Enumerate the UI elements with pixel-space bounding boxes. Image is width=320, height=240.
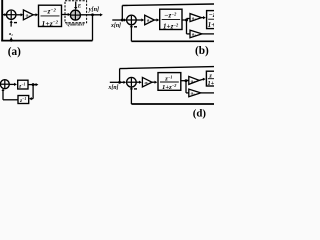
amp d-a3 (lower) [186,89,201,97]
block H3 (cut off at edge) [207,11,220,29]
amp b-a2 (top) [187,14,202,22]
wire input to summer S1 [2,13,7,16]
wire block D2 back to summer S3 [2,88,19,99]
summer S3 (cut at left edge) [0,80,9,89]
wire S3 to block D1 [9,83,17,86]
wire amp b-a2 to block H3 [202,16,206,19]
svg-text:a3: a3 [191,91,195,97]
wire node down to block D2 [29,85,33,101]
wire amp a1 to summer S1 minus port [10,20,13,27]
svg-text:(d): (d) [193,107,207,119]
wire S4 to amp d-a1 [136,81,142,84]
amp a1 (points up) [9,31,13,37]
quantizer dashed box [65,1,87,23]
wire bottom rail (b) [131,40,214,42]
block H2 -z^-2/(1+z^-2) [160,9,182,30]
node (c) output junction [32,83,35,86]
svg-text:y[n]: y[n] [88,6,99,13]
wire feedforward up (d) [119,69,121,83]
node feedforward tap (d) [118,81,121,84]
wire amp d-a2 to block H5 [199,78,205,81]
amp b-a3 (lower) [187,30,203,38]
svg-text:1+z: 1+z [208,80,215,87]
wire amp b-a1 to block H2 [154,18,159,21]
wire S4 down to bottom rail (d) [130,87,133,104]
wire feedback down right side [92,15,94,41]
svg-text:x[n]: x[n] [110,23,121,29]
block H5 (cut off at edge) [206,71,219,87]
block D2 z^-1 [18,96,29,105]
wire feedforward up (b) [121,6,123,21]
wire quantizer to output y[n] [80,13,103,16]
wire amp a2 to block H1 [33,13,38,16]
wire left vertical bar (cropped input rail) [1,0,3,41]
wire amp d-a3 output to edge [201,92,214,94]
node rail junction [10,39,13,42]
wire input x[n] (d) [110,81,126,84]
wire node down to amp d-a3 [185,81,187,93]
svg-text:a1: a1 [145,80,149,86]
svg-text:a2: a2 [26,13,30,19]
wire S2 to amp b-a1 [136,18,144,21]
wire bottom rail (a) [1,40,92,42]
wire amp d-a1 to block H4 [152,81,157,84]
wire rail to amp a1 [10,38,12,41]
block H4 z^-1/(1+z^-2) [158,73,181,91]
wire node down to amp b-a3 [186,20,188,34]
node split junction (d) [185,79,188,82]
node feedforward tap (b) [121,19,124,22]
quantization error input E [74,2,82,10]
svg-text:x[n]: x[n] [108,85,119,91]
block D1 z^-1 [18,80,28,89]
svg-text:a2: a2 [191,78,195,84]
svg-text:1+z: 1+z [208,22,214,29]
svg-text:a2: a2 [192,16,196,22]
wire bottom rail (d) [131,103,214,105]
wire input x[n] (b) [112,18,126,21]
quantizer summer circle [70,10,80,20]
wire S2 down to bottom rail (b) [130,25,133,42]
amp d-a1 [142,77,152,87]
svg-text:a3: a3 [192,32,196,38]
svg-text:a1: a1 [147,18,151,24]
wire amp b-a3 output to edge [202,33,214,35]
block H1 -z^-2/(1+z^-2) [39,5,62,28]
svg-text:Quantizer: Quantizer [66,21,84,26]
amp d-a2 (top) [186,76,199,84]
minus sign at S1 lower port [14,22,17,24]
svg-text:(a): (a) [8,46,21,58]
summer S2 [127,15,137,25]
svg-text:−z: −z [209,12,214,19]
summer S4 [127,77,137,87]
svg-text:E: E [77,3,82,9]
amp a2 [23,10,33,20]
node split junction (b) [185,19,188,22]
node output junction [91,13,94,16]
wire block H2 to node (b) [182,19,187,21]
wire top rail (b) [122,4,214,6]
wire summer S1 to amp a2 [16,13,24,16]
summer S1 [7,10,16,19]
minus sign at S2 [134,26,137,28]
wire top rail (d) [120,67,214,69]
minus sign at S4 [134,88,137,90]
amp b-a1 [145,15,155,25]
wire block H4 to node (d) [181,80,186,82]
wire block D1 to output node [28,83,38,86]
wire block H1 to quantizer [62,13,71,16]
svg-text:a1: a1 [9,31,13,37]
svg-text:(b): (b) [195,45,209,57]
